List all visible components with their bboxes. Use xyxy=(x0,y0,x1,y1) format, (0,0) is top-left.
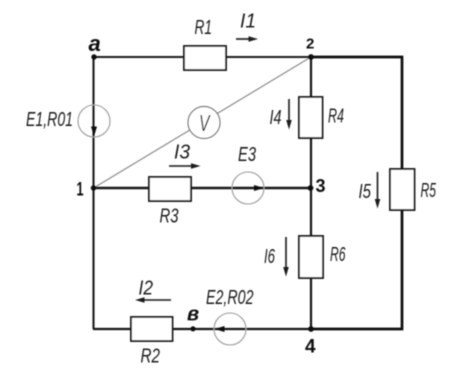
svg-text:I4: I4 xyxy=(270,107,282,129)
svg-text:4: 4 xyxy=(305,337,316,358)
svg-text:2: 2 xyxy=(306,36,314,53)
svg-text:E2,R02: E2,R02 xyxy=(206,287,254,309)
svg-text:3: 3 xyxy=(316,176,326,196)
svg-text:a: a xyxy=(89,31,101,56)
svg-text:I6: I6 xyxy=(264,246,276,268)
svg-text:R4: R4 xyxy=(328,106,344,128)
svg-text:R1: R1 xyxy=(195,17,213,39)
svg-text:V: V xyxy=(199,110,211,136)
svg-text:R5: R5 xyxy=(421,180,437,202)
svg-text:R6: R6 xyxy=(330,244,346,266)
svg-text:в: в xyxy=(187,304,199,326)
svg-text:1: 1 xyxy=(77,180,84,201)
svg-text:I2: I2 xyxy=(139,278,154,300)
svg-text:R3: R3 xyxy=(160,206,179,228)
svg-text:I5: I5 xyxy=(359,181,372,203)
svg-text:E1,R01: E1,R01 xyxy=(26,109,73,131)
svg-text:E3: E3 xyxy=(238,144,256,166)
svg-text:R2: R2 xyxy=(141,346,161,368)
svg-text:I3: I3 xyxy=(174,142,190,164)
svg-text:I1: I1 xyxy=(240,11,256,33)
